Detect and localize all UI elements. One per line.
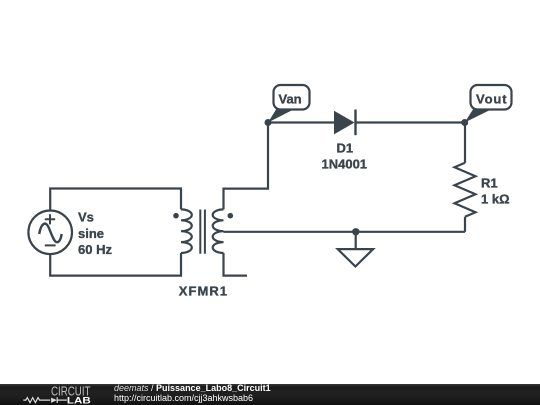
svg-text:Van: Van xyxy=(279,92,302,107)
node flag Vout box xyxy=(471,85,512,110)
svg-text:1N4001: 1N4001 xyxy=(322,157,368,172)
ground stub wire xyxy=(355,232,357,249)
wire Van node to diode anode xyxy=(268,121,334,123)
transformer XFMR1 secondary winding xyxy=(213,209,224,253)
wire R1 bottom to rail xyxy=(464,217,466,232)
svg-text:XFMR1: XFMR1 xyxy=(179,284,227,299)
transformer XFMR1 primary winding xyxy=(181,209,192,253)
ground symbol triangle xyxy=(338,249,373,266)
voltage source Vs xyxy=(28,211,72,255)
node flag Van tail xyxy=(268,109,293,123)
node junction dot Van xyxy=(265,119,272,126)
wire Vout node down to resistor R1 xyxy=(464,123,466,163)
credit text xyxy=(114,384,271,403)
wire secondary top to Van node xyxy=(224,123,269,210)
node flag Van box xyxy=(274,85,310,110)
svg-text:Vout: Vout xyxy=(476,91,507,106)
CircuitLab logo xyxy=(0,383,110,405)
svg-text:60 Hz: 60 Hz xyxy=(78,242,112,257)
wire bottom-left rail xyxy=(50,253,181,276)
transformer secondary phase dot xyxy=(228,213,234,219)
footer bar xyxy=(0,384,540,405)
svg-text:LAB: LAB xyxy=(67,396,91,405)
transformer primary phase dot xyxy=(173,213,179,219)
diode D1 triangle xyxy=(334,111,355,135)
svg-text:sine: sine xyxy=(78,226,104,241)
svg-text:D1: D1 xyxy=(337,141,354,156)
svg-text:R1: R1 xyxy=(481,176,498,191)
wire secondary bottom stub xyxy=(224,253,248,276)
svg-text:1 kΩ: 1 kΩ xyxy=(481,192,510,207)
node junction dot Vout xyxy=(461,119,468,126)
svg-text:Vs: Vs xyxy=(78,210,94,225)
wire top-left rail xyxy=(50,189,181,211)
diode D1 cathode bar xyxy=(354,110,356,136)
wire diode cathode to Vout node xyxy=(356,121,466,123)
node junction dot ground xyxy=(352,228,359,235)
wire bottom rail (center tap to R1) xyxy=(224,231,466,233)
transformer XFMR1 core xyxy=(200,210,205,254)
node flag Vout tail xyxy=(465,109,490,123)
resistor R1 zigzag xyxy=(455,163,476,217)
